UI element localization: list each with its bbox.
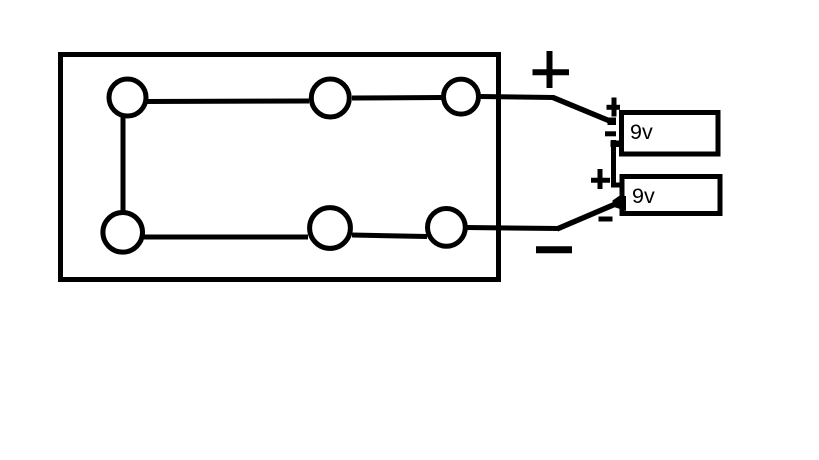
terminal T6 (bottom-right) [428,209,466,247]
wire diagonal to battery B1 plus [553,98,611,122]
terminal T5 (bottom-middle) [310,208,351,249]
wire T6 out to right [466,228,559,229]
small minus at B1 terminal [605,131,616,136]
terminal T1 (top-left) [109,79,146,116]
small minus at B2 terminal [599,217,613,222]
wire T5 to T6 [352,235,427,237]
wire diagonal to battery B2 minus [557,203,619,230]
battery B1 body [622,113,719,155]
junction blob at B1 [608,118,617,126]
wire T1 to T2 [146,99,309,105]
battery B2 body [622,177,720,214]
arrowhead at B2 [613,196,627,211]
series link wire B1 minus to B2 plus [614,140,623,185]
wire T1 down to T4 [121,116,126,211]
svg-text:9v: 9v [630,120,653,144]
small plus at B2 terminal [591,169,610,189]
terminal T3 (top-right) [444,79,479,114]
svg-text:9v: 9v [632,184,655,208]
terminal block outline [61,55,499,280]
terminal T4 (bottom-left) [103,213,143,253]
wire T4 to T5 [144,235,308,240]
big minus symbol (negative lead) [536,246,572,253]
small plus at B1 terminal [607,98,621,117]
big plus symbol (positive lead) [533,51,570,88]
wire T2 to T3 [352,95,442,101]
junction dot at B1 bottom [611,141,622,148]
terminal T2 (top-middle) [311,79,349,117]
wire T3 out to right [481,97,555,98]
